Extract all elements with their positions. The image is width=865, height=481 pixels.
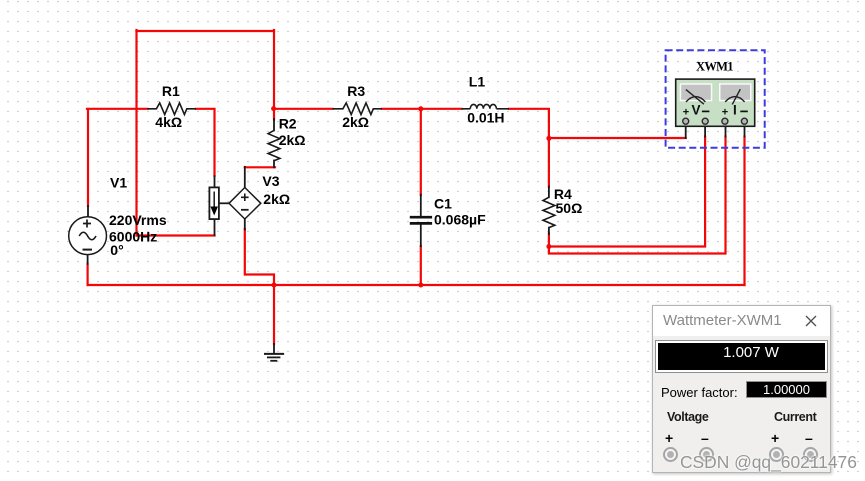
wire R3 to node B xyxy=(382,108,421,110)
wire sensor-bottom horizontal xyxy=(137,234,215,236)
svg-text:V: V xyxy=(691,103,700,118)
power factor label xyxy=(661,385,738,400)
svg-text:0.068µF: 0.068µF xyxy=(434,211,486,227)
plus minus row xyxy=(665,430,673,446)
power display 1.007 W xyxy=(655,340,828,373)
wattmeter XWM1 selection box xyxy=(666,50,765,148)
svg-text:50Ω: 50Ω xyxy=(556,200,583,216)
svg-text:XWM1: XWM1 xyxy=(696,60,733,74)
controlled source V3 xyxy=(229,188,261,220)
source V1 xyxy=(69,217,107,255)
lead ground stem xyxy=(273,344,275,354)
terminal I- xyxy=(803,447,818,462)
lead C1 bottom xyxy=(420,224,422,246)
lead R4 bottom xyxy=(548,228,550,234)
junction node F (C1 bottom) xyxy=(418,283,423,288)
resistor R4 xyxy=(543,197,555,227)
wire node D to wattmeter terminal 3 xyxy=(549,137,726,254)
svg-text:V3: V3 xyxy=(262,173,279,189)
current sense probe (V3 control branch) xyxy=(209,187,219,219)
wire V3 bottom to ground node xyxy=(245,229,274,285)
resistor R2 xyxy=(268,130,280,160)
svg-text:R3: R3 xyxy=(347,83,365,99)
wire V1 plus to R1 xyxy=(87,109,148,206)
lead sensor top xyxy=(214,176,216,187)
dialog title bar xyxy=(653,306,830,336)
lead R4 top xyxy=(548,187,550,198)
resistor R1 xyxy=(148,103,197,115)
wire node A to R3 xyxy=(274,108,333,110)
svg-text:L1: L1 xyxy=(469,74,486,90)
lead wattmeter terminal 3 xyxy=(725,124,727,137)
lead wattmeter terminal 4 xyxy=(744,124,746,137)
svg-text:R1: R1 xyxy=(162,83,180,99)
current meter display xyxy=(719,83,752,101)
svg-text:C1: C1 xyxy=(434,195,452,211)
current label xyxy=(774,410,816,424)
svg-text:R2: R2 xyxy=(279,115,297,131)
junction node D (R4 bottom) xyxy=(546,244,551,249)
svg-text:+: + xyxy=(683,107,689,119)
terminal V- xyxy=(699,447,714,462)
svg-text:2kΩ: 2kΩ xyxy=(279,132,306,148)
current gauge arc and needle xyxy=(725,97,744,102)
ground xyxy=(264,354,284,361)
terminal I+ xyxy=(769,447,784,462)
wire wattmeter terminal 4 down xyxy=(743,137,745,286)
junction node C (wattmeter V+) xyxy=(546,136,551,141)
wire ground node down xyxy=(273,285,275,344)
svg-text:2kΩ: 2kΩ xyxy=(342,114,369,130)
voltage meter display xyxy=(680,83,713,101)
junction node A (R2 top) xyxy=(271,106,276,111)
lead sensor bottom xyxy=(214,219,216,235)
svg-text:2kΩ: 2kΩ xyxy=(263,191,290,207)
voltage label xyxy=(667,410,708,424)
wire bottom rail xyxy=(88,284,745,286)
dialog close button xyxy=(805,315,817,327)
lead V1 top xyxy=(87,206,89,217)
lead V3 bottom xyxy=(244,219,246,230)
svg-text:220Vrms: 220Vrms xyxy=(109,212,167,228)
power factor field xyxy=(746,381,827,398)
wire node B to L1 xyxy=(421,108,462,110)
lead V3 left to sensor xyxy=(219,202,230,204)
wattmeter dialog panel xyxy=(652,305,831,473)
lead V3 top xyxy=(244,167,246,188)
wire node D to wattmeter terminal 2 xyxy=(549,137,705,247)
wattmeter XWM1 icon xyxy=(676,79,755,126)
wire V1 minus down xyxy=(86,264,88,285)
svg-text:0°: 0° xyxy=(110,242,123,258)
svg-text:+: + xyxy=(722,107,728,119)
lead wattmeter terminal 1 xyxy=(685,124,687,138)
svg-text:4kΩ: 4kΩ xyxy=(155,114,182,130)
inductor L1 xyxy=(462,104,510,108)
wire R2 top stub xyxy=(273,109,275,120)
junction node B (C1 top) xyxy=(418,106,423,111)
wire C1 bottom xyxy=(420,246,422,285)
terminal pins xyxy=(683,118,689,124)
terminal V+ xyxy=(663,447,678,462)
lead wattmeter terminal 2 xyxy=(704,124,706,137)
lead C1 top xyxy=(420,195,422,217)
wire R1 to sensor top xyxy=(196,109,215,176)
wire right vertical of top loop to node R2 xyxy=(273,30,275,109)
svg-text:V1: V1 xyxy=(110,175,127,191)
wire R2 bottom to V3 top xyxy=(245,166,275,168)
wattmeter body xyxy=(676,79,755,126)
svg-text:I: I xyxy=(733,103,737,118)
wire top loop horizontal xyxy=(137,30,275,32)
wire R4 bottom to node D xyxy=(548,234,550,247)
junction node E (ground rail) xyxy=(272,283,277,288)
wire node C to wattmeter terminal 1 xyxy=(549,137,686,139)
wire C1 top xyxy=(420,109,422,195)
capacitor C1 xyxy=(410,217,432,223)
resistor R3 xyxy=(333,103,383,115)
voltage gauge arc and needle xyxy=(686,97,705,102)
wire left vertical from top loop xyxy=(135,30,137,236)
lead V1 bottom xyxy=(87,255,89,264)
svg-text:0.01H: 0.01H xyxy=(467,110,504,126)
wire L1 to corner and down to R4 xyxy=(509,109,549,187)
lead R2 bottom xyxy=(273,161,275,168)
watermark xyxy=(680,452,857,473)
lead R2 top xyxy=(273,119,275,130)
